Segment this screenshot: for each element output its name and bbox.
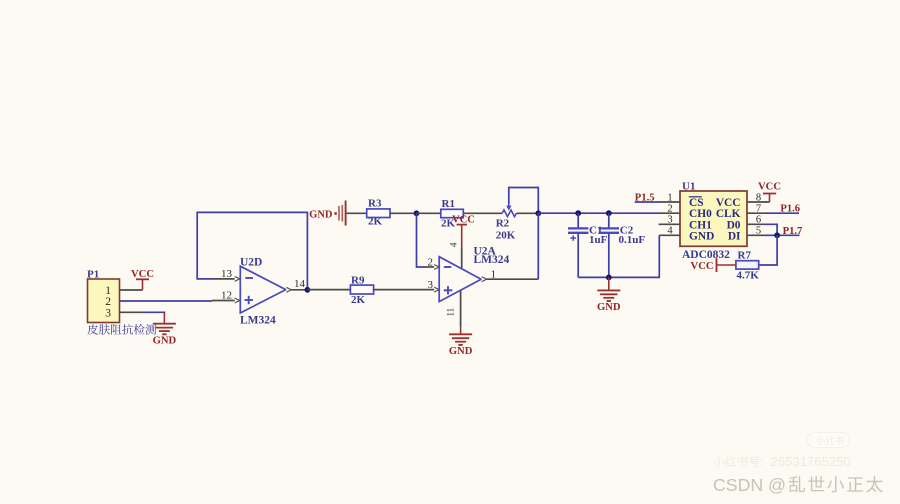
- capacitor C1 polarity plus: [571, 237, 577, 239]
- op-amp U2D pin 12 arrow: [235, 298, 240, 303]
- svg-text::: :: [760, 454, 764, 469]
- IC U1 pin 6 wire: [747, 223, 767, 225]
- IC U1 pin 3 wire: [659, 223, 680, 225]
- op-amp U2D pin 13 wire: [213, 278, 235, 280]
- connector P1 pin 1 wire: [120, 289, 143, 291]
- IC U1 ADC0832 body: [680, 191, 747, 246]
- svg-text:P1.5: P1.5: [635, 193, 655, 204]
- wire R2 wiper loop: [509, 188, 539, 214]
- svg-text:20K: 20K: [496, 230, 516, 242]
- op-amp U2A pin 3 arrow: [434, 287, 439, 292]
- wire R9 to U2A pin 3: [374, 289, 435, 291]
- wire junction to R1: [417, 212, 441, 214]
- power VCC at U1 pin 8: [769, 194, 771, 203]
- wire junction down to R7: [759, 235, 777, 265]
- op-amp U2D minus sign: [245, 277, 253, 279]
- svg-text:2K: 2K: [368, 216, 383, 228]
- wire junction down to U2A pin 2: [417, 213, 425, 267]
- op-amp U2A minus sign: [444, 266, 452, 268]
- IC U1 pin 5 wire: [747, 234, 767, 236]
- net label P1.5: [635, 201, 660, 203]
- capacitor C2 bottom lead: [608, 234, 610, 278]
- svg-text:26531765250: 26531765250: [771, 454, 851, 469]
- resistor R9 body: [350, 285, 373, 294]
- resistor R3 body: [367, 209, 390, 218]
- node C2 bottom junction: [606, 275, 612, 281]
- resistor R7 body: [736, 261, 759, 269]
- svg-text:LM324: LM324: [474, 254, 510, 266]
- connector P1 body: [88, 279, 120, 323]
- svg-text:1: 1: [105, 285, 111, 297]
- wire GND to R3: [346, 212, 366, 214]
- wire capacitor ground bus: [578, 235, 659, 277]
- connector P1 pin 3 wire: [120, 311, 146, 313]
- svg-text:2K: 2K: [351, 294, 366, 306]
- svg-text:GND: GND: [597, 302, 621, 313]
- svg-text:U2D: U2D: [240, 256, 262, 268]
- potentiometer R2 zigzag: [502, 210, 516, 217]
- op-amp U2D body: [240, 266, 285, 313]
- svg-text:13: 13: [221, 268, 233, 280]
- svg-text:P1.6: P1.6: [780, 203, 800, 214]
- svg-text:R7: R7: [738, 250, 752, 262]
- svg-text:VCC: VCC: [452, 214, 475, 225]
- svg-text:2: 2: [105, 296, 111, 308]
- svg-text:CS: CS: [689, 197, 704, 209]
- potentiometer R2 wiper arrow: [508, 203, 510, 207]
- svg-text:GND: GND: [449, 346, 473, 357]
- svg-text:1uF: 1uF: [589, 234, 608, 246]
- svg-text:11: 11: [446, 308, 456, 317]
- op-amp U2D output arrow: [286, 287, 291, 292]
- capacitor C1 plates: [568, 227, 588, 229]
- node R2 output junction: [535, 210, 541, 216]
- wire U2D feedback loop: [197, 212, 307, 289]
- wire R1 to R2: [463, 212, 502, 214]
- IC U1 pin 7 wire: [747, 212, 767, 214]
- svg-text:R2: R2: [496, 218, 510, 230]
- svg-text:VCC: VCC: [716, 197, 741, 209]
- op-amp U2A plus sign: [444, 289, 453, 291]
- op-amp U2A pin 4 wire: [461, 248, 463, 269]
- svg-text:4.7K: 4.7K: [737, 270, 760, 282]
- svg-text:DI: DI: [728, 231, 741, 243]
- svg-text:3: 3: [428, 279, 434, 291]
- svg-text:2: 2: [667, 203, 672, 214]
- svg-text:VCC: VCC: [758, 181, 781, 192]
- IC U1 pin 8 wire: [747, 201, 770, 203]
- op-amp U2A output arrow: [482, 277, 487, 282]
- net label P1.7: [766, 234, 800, 236]
- wire P1 pin 2 to U2D pin 12: [120, 300, 213, 302]
- svg-text:4: 4: [449, 242, 459, 247]
- svg-text:R3: R3: [368, 197, 382, 209]
- IC U1 pin 4 wire: [659, 234, 680, 236]
- svg-text:ADC0832: ADC0832: [682, 249, 730, 261]
- capacitor C1 bottom lead: [577, 234, 579, 278]
- watermark xiaohongshu id: [713, 456, 759, 467]
- svg-text:14: 14: [294, 278, 306, 290]
- node U2D output junction: [305, 287, 311, 293]
- svg-text:VCC: VCC: [131, 269, 154, 280]
- ground GND below capacitors: [608, 277, 610, 290]
- wire U2D output to R9: [307, 289, 350, 291]
- svg-text:12: 12: [221, 290, 232, 302]
- svg-text:P1.7: P1.7: [783, 226, 803, 237]
- node C1 top junction: [575, 210, 581, 216]
- wire junction down to U2A output: [537, 213, 539, 279]
- op-amp U2A body: [439, 257, 481, 302]
- svg-text:D0: D0: [727, 219, 741, 231]
- svg-text:0.1uF: 0.1uF: [619, 234, 646, 246]
- svg-text:R9: R9: [351, 274, 365, 286]
- svg-text:GND: GND: [309, 209, 333, 220]
- resistor R1 body: [441, 209, 464, 217]
- wire R2 junction to ADC CH0: [538, 212, 660, 214]
- ground GND at P1 pin 3: [163, 312, 165, 323]
- op-amp U2A pin 2 arrow: [434, 265, 439, 270]
- capacitor C2 plates: [599, 227, 619, 229]
- capacitor C2 top lead: [608, 213, 610, 227]
- IC U1 pin 1 wire: [660, 201, 681, 203]
- wire R3 to junction: [390, 212, 417, 214]
- op-amp U2D plus sign: [245, 299, 254, 301]
- svg-text:2: 2: [428, 257, 434, 269]
- capacitor C1 top lead: [577, 213, 579, 227]
- svg-text:3: 3: [105, 307, 111, 319]
- node R3-R1 junction: [414, 210, 420, 216]
- net label P1.6: [766, 212, 799, 214]
- op-amp U2A pin 11 wire: [460, 291, 462, 328]
- svg-text:R1: R1: [442, 198, 455, 210]
- svg-text:CSDN @: CSDN @: [713, 475, 786, 495]
- ground GND at U2A pin 11: [460, 328, 462, 335]
- watermark pill: [808, 433, 850, 448]
- wire R2 to junction: [516, 212, 538, 214]
- svg-text:GND: GND: [153, 335, 177, 346]
- op-amp U2A pin 1 wire: [487, 278, 539, 280]
- svg-text:VCC: VCC: [691, 261, 714, 272]
- power VCC at P1 pin 1: [136, 278, 149, 280]
- svg-text:CH1: CH1: [689, 219, 712, 231]
- svg-text:LM324: LM324: [240, 315, 276, 327]
- wire D0 down to DI node: [766, 224, 777, 235]
- label 皮肤阻抗检测: [87, 324, 156, 335]
- node D0-DI junction: [774, 232, 780, 238]
- svg-text:GND: GND: [689, 231, 714, 243]
- op-amp U2D pin 14 wire: [291, 289, 307, 291]
- node C2 top junction: [606, 210, 612, 216]
